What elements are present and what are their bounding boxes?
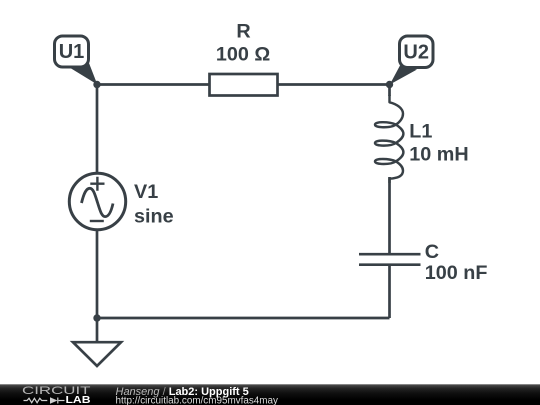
svg-text:sine: sine — [134, 206, 174, 228]
svg-text:R: R — [236, 20, 250, 42]
svg-text:U1: U1 — [59, 41, 85, 63]
svg-text:100 nF: 100 nF — [425, 262, 488, 284]
svg-text:L1: L1 — [409, 121, 432, 143]
svg-text:LAB: LAB — [66, 395, 91, 405]
svg-text:10 mH: 10 mH — [409, 144, 468, 166]
svg-text:V1: V1 — [134, 181, 158, 203]
svg-text:U2: U2 — [403, 41, 429, 63]
svg-text:C: C — [425, 241, 439, 263]
svg-text:100 Ω: 100 Ω — [216, 44, 271, 66]
svg-text:http://circuitlab.com/cm95mvfa: http://circuitlab.com/cm95mvfas4may — [116, 395, 279, 405]
